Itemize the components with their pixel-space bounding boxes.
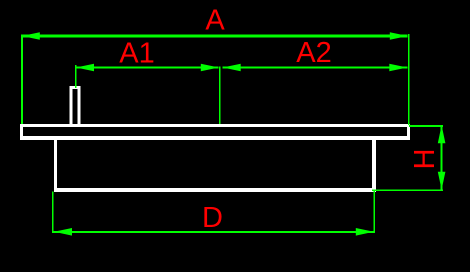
svg-text:A: A xyxy=(205,5,225,37)
svg-text:D: D xyxy=(202,202,223,234)
svg-text:A2: A2 xyxy=(296,37,331,69)
svg-text:H: H xyxy=(409,149,441,170)
svg-text:A1: A1 xyxy=(119,38,154,70)
